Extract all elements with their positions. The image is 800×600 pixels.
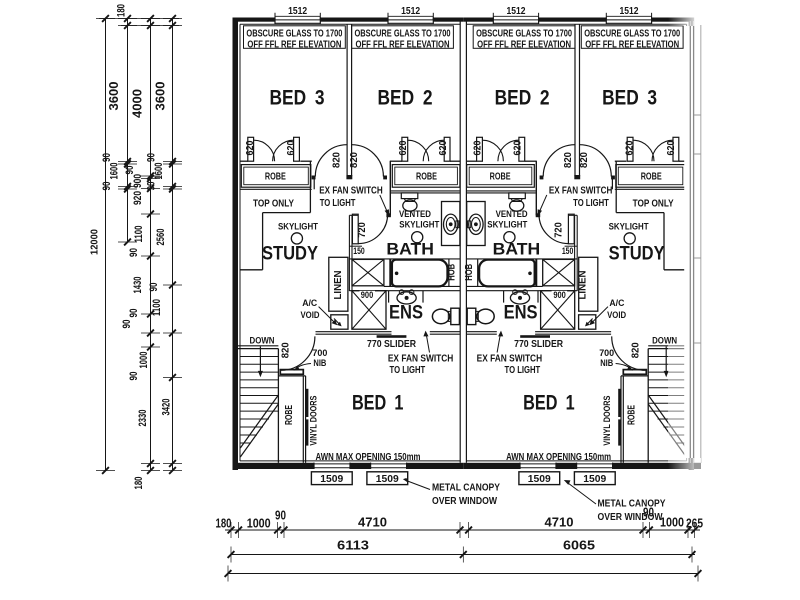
svg-text:1000: 1000 (247, 516, 271, 530)
svg-text:EX FAN SWITCH: EX FAN SWITCH (319, 186, 383, 197)
svg-text:4000: 4000 (130, 89, 145, 118)
svg-text:ENS: ENS (504, 302, 538, 323)
svg-text:VENTED: VENTED (496, 209, 528, 220)
svg-text:150: 150 (353, 246, 365, 257)
svg-text:VOID: VOID (607, 310, 626, 321)
svg-text:1509: 1509 (583, 474, 606, 485)
svg-text:90: 90 (128, 309, 140, 318)
svg-text:820: 820 (629, 342, 641, 358)
svg-text:820: 820 (331, 152, 343, 168)
svg-text:LINEN: LINEN (333, 271, 344, 300)
svg-text:265: 265 (686, 516, 703, 530)
svg-text:VOID: VOID (301, 310, 320, 321)
svg-text:620: 620 (665, 140, 677, 155)
svg-text:BATH: BATH (386, 240, 434, 258)
svg-text:3600: 3600 (106, 82, 121, 111)
svg-text:BED 3: BED 3 (270, 87, 325, 110)
svg-text:90: 90 (146, 153, 158, 162)
svg-text:OVER WINDOW: OVER WINDOW (432, 496, 497, 507)
svg-text:1100: 1100 (151, 299, 163, 316)
svg-text:ROBE: ROBE (283, 405, 295, 425)
svg-text:BED 1: BED 1 (523, 391, 575, 414)
svg-text:900: 900 (361, 290, 374, 301)
svg-text:AWN MAX OPENING 150mm: AWN MAX OPENING 150mm (506, 452, 611, 463)
svg-text:BED 1: BED 1 (352, 391, 404, 414)
svg-text:1100: 1100 (133, 226, 145, 243)
svg-text:BATH: BATH (493, 240, 541, 258)
svg-text:90: 90 (148, 283, 160, 292)
svg-text:620: 620 (285, 140, 297, 155)
svg-text:HOB: HOB (445, 264, 457, 281)
svg-text:820: 820 (279, 342, 291, 358)
svg-text:3420: 3420 (161, 399, 173, 416)
svg-text:METAL CANOPY: METAL CANOPY (432, 483, 500, 494)
svg-text:770 SLIDER: 770 SLIDER (514, 339, 564, 350)
svg-text:620: 620 (437, 140, 449, 155)
svg-text:3600: 3600 (153, 82, 168, 111)
svg-text:VINYL DOORS: VINYL DOORS (602, 396, 613, 446)
svg-text:OFF FFL REF ELEVATION: OFF FFL REF ELEVATION (585, 40, 679, 51)
svg-text:90: 90 (643, 505, 654, 519)
svg-text:1509: 1509 (376, 474, 399, 485)
svg-text:ENS: ENS (389, 302, 423, 323)
svg-text:90: 90 (128, 372, 140, 381)
svg-text:90: 90 (101, 153, 113, 162)
svg-text:6065: 6065 (563, 538, 595, 552)
svg-text:ROBE: ROBE (265, 171, 286, 182)
svg-text:ROBE: ROBE (626, 405, 638, 425)
svg-text:TO LIGHT: TO LIGHT (573, 198, 609, 209)
svg-text:SKYLIGHT: SKYLIGHT (278, 222, 318, 233)
svg-text:1512: 1512 (507, 5, 526, 17)
svg-text:1430: 1430 (132, 277, 144, 294)
svg-text:NIB: NIB (600, 358, 613, 369)
svg-text:STUDY: STUDY (262, 244, 318, 265)
svg-text:90: 90 (146, 182, 158, 191)
svg-text:STUDY: STUDY (609, 244, 665, 265)
svg-text:BED 2: BED 2 (495, 87, 550, 110)
svg-text:900: 900 (132, 174, 144, 188)
svg-text:OFF FFL REF ELEVATION: OFF FFL REF ELEVATION (247, 40, 341, 51)
svg-text:90: 90 (101, 182, 113, 191)
svg-text:OBSCURE GLASS TO 1700: OBSCURE GLASS TO 1700 (584, 28, 680, 39)
svg-text:METAL CANOPY: METAL CANOPY (598, 498, 666, 509)
svg-text:OBSCURE GLASS TO 1700: OBSCURE GLASS TO 1700 (476, 28, 572, 39)
svg-text:720: 720 (553, 222, 565, 238)
svg-text:90: 90 (128, 248, 140, 257)
svg-text:180: 180 (133, 477, 145, 490)
svg-text:1512: 1512 (288, 5, 307, 17)
svg-text:1000: 1000 (138, 352, 150, 369)
svg-text:OBSCURE GLASS TO 1700: OBSCURE GLASS TO 1700 (355, 28, 451, 39)
svg-text:ROBE: ROBE (641, 171, 662, 182)
svg-text:SKYLIGHT: SKYLIGHT (399, 220, 439, 231)
svg-text:820: 820 (562, 152, 574, 168)
svg-text:620: 620 (244, 140, 256, 155)
svg-text:OBSCURE GLASS TO 1700: OBSCURE GLASS TO 1700 (246, 28, 342, 39)
svg-text:1509: 1509 (528, 474, 551, 485)
svg-text:DOWN: DOWN (250, 335, 275, 346)
svg-text:1600: 1600 (153, 163, 165, 180)
svg-text:ROBE: ROBE (490, 171, 511, 182)
svg-text:SKYLIGHT: SKYLIGHT (609, 222, 649, 233)
svg-text:OFF FFL REF ELEVATION: OFF FFL REF ELEVATION (356, 40, 450, 51)
svg-text:EX FAN SWITCH: EX FAN SWITCH (388, 354, 454, 365)
svg-text:VENTED: VENTED (399, 209, 431, 220)
svg-text:820: 820 (578, 152, 590, 168)
svg-text:ROBE: ROBE (416, 171, 437, 182)
svg-text:1509: 1509 (320, 474, 343, 485)
svg-text:VINYL DOORS: VINYL DOORS (309, 396, 320, 446)
svg-text:620: 620 (623, 140, 635, 155)
svg-text:AWN MAX OPENING 150mm: AWN MAX OPENING 150mm (316, 452, 421, 463)
svg-text:4710: 4710 (545, 515, 574, 529)
svg-text:OFF FFL REF ELEVATION: OFF FFL REF ELEVATION (477, 40, 571, 51)
svg-text:900: 900 (553, 290, 566, 301)
svg-text:TO LIGHT: TO LIGHT (390, 365, 426, 376)
svg-text:NIB: NIB (313, 358, 326, 369)
svg-text:12000: 12000 (89, 229, 101, 255)
svg-text:180: 180 (116, 4, 128, 17)
svg-text:LINEN: LINEN (577, 271, 588, 300)
svg-text:620: 620 (472, 140, 484, 155)
svg-text:90: 90 (121, 320, 133, 329)
svg-text:2330: 2330 (137, 410, 149, 427)
svg-text:620: 620 (512, 140, 524, 155)
svg-text:720: 720 (356, 222, 368, 238)
svg-text:2560: 2560 (155, 229, 167, 246)
svg-text:TOP ONLY: TOP ONLY (253, 199, 294, 210)
svg-text:DOWN: DOWN (652, 335, 677, 346)
svg-text:1512: 1512 (401, 5, 420, 17)
svg-text:180: 180 (216, 516, 232, 530)
svg-text:TO LIGHT: TO LIGHT (505, 365, 541, 376)
svg-text:1000: 1000 (660, 515, 684, 529)
svg-text:SKYLIGHT: SKYLIGHT (487, 220, 527, 231)
svg-text:90: 90 (275, 508, 286, 522)
svg-text:770 SLIDER: 770 SLIDER (367, 339, 417, 350)
svg-text:EX FAN SWITCH: EX FAN SWITCH (549, 186, 613, 197)
svg-text:EX FAN SWITCH: EX FAN SWITCH (477, 354, 543, 365)
svg-text:HOB: HOB (463, 264, 475, 281)
svg-text:A/C: A/C (609, 298, 624, 309)
svg-text:820: 820 (348, 152, 360, 168)
svg-text:90: 90 (124, 166, 136, 175)
svg-text:150: 150 (562, 246, 574, 257)
svg-text:TOP ONLY: TOP ONLY (633, 199, 674, 210)
svg-text:BED 3: BED 3 (602, 87, 657, 110)
svg-text:TO LIGHT: TO LIGHT (320, 198, 356, 209)
svg-text:BED 2: BED 2 (378, 87, 433, 110)
svg-text:920: 920 (132, 191, 144, 205)
svg-text:6113: 6113 (337, 538, 369, 552)
svg-text:620: 620 (397, 140, 409, 155)
svg-text:A/C: A/C (302, 298, 317, 309)
svg-text:4710: 4710 (358, 515, 387, 529)
svg-text:1600: 1600 (109, 163, 121, 180)
svg-text:1512: 1512 (620, 5, 639, 17)
